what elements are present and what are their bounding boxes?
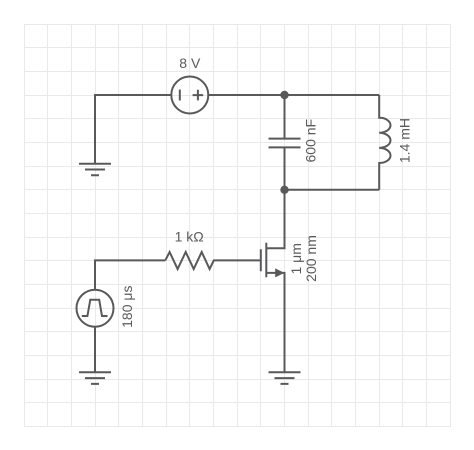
- svg-text:8 V: 8 V: [179, 55, 201, 71]
- svg-text:1.4 mH: 1.4 mH: [397, 118, 413, 163]
- svg-text:1 kΩ: 1 kΩ: [175, 228, 204, 244]
- svg-text:1 μm: 1 μm: [288, 243, 304, 274]
- svg-text:200 nm: 200 nm: [303, 235, 319, 282]
- svg-text:600 nF: 600 nF: [303, 119, 319, 163]
- svg-text:180 μs: 180 μs: [119, 286, 135, 328]
